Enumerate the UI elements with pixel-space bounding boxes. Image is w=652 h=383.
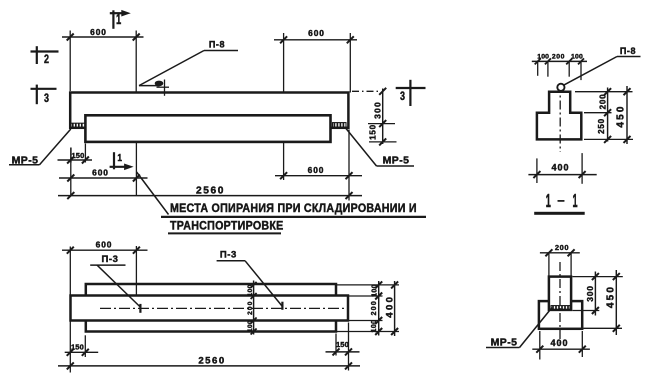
svg-text:450: 450 — [615, 104, 626, 127]
section 1-1 right extension lines — [575, 91, 633, 93]
dimension 150 plan left — [84, 335, 86, 357]
section 1-1 centerline — [559, 84, 561, 153]
svg-text:450: 450 — [606, 285, 617, 308]
section 1-1 bottom dim 400 — [536, 158, 538, 183]
beam elevation - web rectangle 2560x300 — [70, 93, 348, 128]
svg-text:2560: 2560 — [198, 356, 225, 367]
section 2 top dim 200 — [548, 253, 550, 276]
section 2 dim 450 — [615, 270, 617, 335]
svg-text:600: 600 — [308, 165, 325, 175]
view mark 2 left — [31, 50, 59, 52]
beam elevation - bottom flange rectangle — [85, 115, 330, 142]
svg-text:2: 2 — [44, 53, 49, 67]
svg-text:3: 3 — [400, 90, 405, 104]
right side height dimensions 300 and 150 — [352, 90, 380, 92]
dimension 600 lower-left — [70, 148, 72, 197]
loop position tick left — [139, 304, 141, 313]
svg-text:МР-5: МР-5 — [383, 154, 410, 166]
svg-text:250: 250 — [597, 118, 606, 134]
dimension 2560 plan — [58, 365, 360, 367]
svg-text:150: 150 — [368, 124, 377, 140]
label MP-5 right with leader — [346, 129, 377, 167]
view mark 3 left — [31, 88, 57, 90]
note underline 1 — [161, 216, 426, 218]
svg-text:100: 100 — [371, 320, 378, 333]
section 2 web rectangle — [549, 277, 571, 310]
plan mid width dimensions 100 200 100 — [253, 281, 255, 335]
svg-text:1: 1 — [546, 192, 551, 212]
section 2 flange rectangle — [539, 301, 582, 329]
section 2 dim 300 — [594, 272, 596, 316]
svg-text:200: 200 — [247, 300, 254, 314]
plan right width extension lines — [337, 284, 399, 286]
label MP-5 left with leader — [9, 164, 40, 166]
svg-text:П-8: П-8 — [620, 46, 636, 56]
dimension 150 lower-left — [70, 148, 72, 163]
svg-text:200: 200 — [555, 243, 569, 252]
svg-text:МР-5: МР-5 — [12, 154, 39, 166]
lifting loop P-8 cross section circle — [557, 84, 564, 91]
svg-text:600: 600 — [308, 28, 325, 38]
svg-text:100: 100 — [571, 54, 583, 61]
svg-text:150: 150 — [71, 342, 84, 351]
svg-text:400: 400 — [551, 163, 569, 173]
label MP-5 section 2 with leader — [520, 308, 553, 348]
dimension 2560 elevation — [58, 195, 362, 197]
plan overall width dimension 400 — [394, 281, 396, 336]
section 1-1 dims 200 250 — [607, 88, 609, 142]
svg-text:100: 100 — [372, 284, 379, 297]
svg-text:ТРАНСПОРТИРОВКЕ: ТРАНСПОРТИРОВКЕ — [170, 220, 284, 233]
section 1-1 outline — [537, 92, 581, 140]
svg-text:100: 100 — [247, 320, 254, 332]
plan view - bottom flange rectangle — [86, 284, 336, 332]
section 2 right extension lines — [573, 276, 623, 278]
svg-text:3: 3 — [44, 92, 49, 106]
lifting loop P-8 side view — [155, 81, 164, 87]
section 1-1 top dimensions 100 200 100 — [532, 60, 587, 62]
dimension 600 top-right — [283, 33, 285, 92]
svg-text:300: 300 — [372, 101, 382, 119]
view mark 3 right — [396, 87, 426, 89]
svg-text:МР-5: МР-5 — [491, 336, 518, 348]
svg-text:150: 150 — [336, 340, 349, 349]
svg-text:100: 100 — [537, 54, 549, 61]
section title underline — [534, 212, 585, 215]
svg-text:200: 200 — [598, 94, 607, 110]
leader line to label P-8 — [139, 85, 160, 87]
svg-text:МЕСТА ОПИРАНИЯ ПРИ СКЛАДИРОВАН: МЕСТА ОПИРАНИЯ ПРИ СКЛАДИРОВАНИИ И — [170, 202, 417, 215]
section 2 bottom dim 400 — [539, 331, 541, 360]
embedded plate MP-5 left (hatched) — [71, 123, 85, 128]
svg-text:300: 300 — [585, 285, 595, 302]
loop position tick right — [281, 302, 283, 310]
svg-text:600: 600 — [96, 239, 113, 249]
svg-text:1: 1 — [117, 152, 122, 164]
svg-text:600: 600 — [90, 27, 107, 37]
svg-text:П-8: П-8 — [209, 40, 225, 50]
note underline 2 — [168, 232, 281, 234]
leader to support note — [137, 172, 169, 215]
leader to label P-8 section — [564, 57, 617, 85]
svg-text:П-3: П-3 — [101, 254, 118, 265]
svg-text:1: 1 — [116, 11, 121, 28]
svg-text:600: 600 — [92, 168, 109, 178]
svg-text:–: – — [557, 193, 564, 208]
section 2 embedded plate MP-5 (hatched) — [551, 306, 570, 310]
svg-text:200: 200 — [371, 300, 378, 315]
section mark 1 top — [112, 10, 114, 29]
svg-text:100: 100 — [247, 284, 254, 296]
plan right width dimension line 100 200 100 — [378, 281, 380, 336]
dimension 600 plan — [69, 247, 71, 373]
svg-text:150: 150 — [71, 151, 84, 160]
section mark 1 bottom — [113, 152, 115, 169]
svg-text:400: 400 — [385, 295, 396, 318]
dimension 600 lower-right — [283, 143, 285, 181]
embedded plate MP-5 right (hatched) — [333, 123, 347, 128]
svg-text:1: 1 — [572, 192, 577, 212]
section 2 centerline — [559, 262, 561, 344]
plan view centerline — [100, 307, 344, 309]
svg-text:400: 400 — [550, 338, 568, 348]
svg-text:2560: 2560 — [196, 185, 225, 196]
dimension 150 plan right — [335, 334, 337, 356]
svg-text:П-3: П-3 — [220, 249, 237, 260]
plan view - web rectangle (on top) — [71, 296, 349, 321]
dimension 600 top-left — [69, 31, 71, 92]
svg-text:200: 200 — [552, 54, 565, 61]
section 1-1 dim 450 — [626, 86, 628, 144]
